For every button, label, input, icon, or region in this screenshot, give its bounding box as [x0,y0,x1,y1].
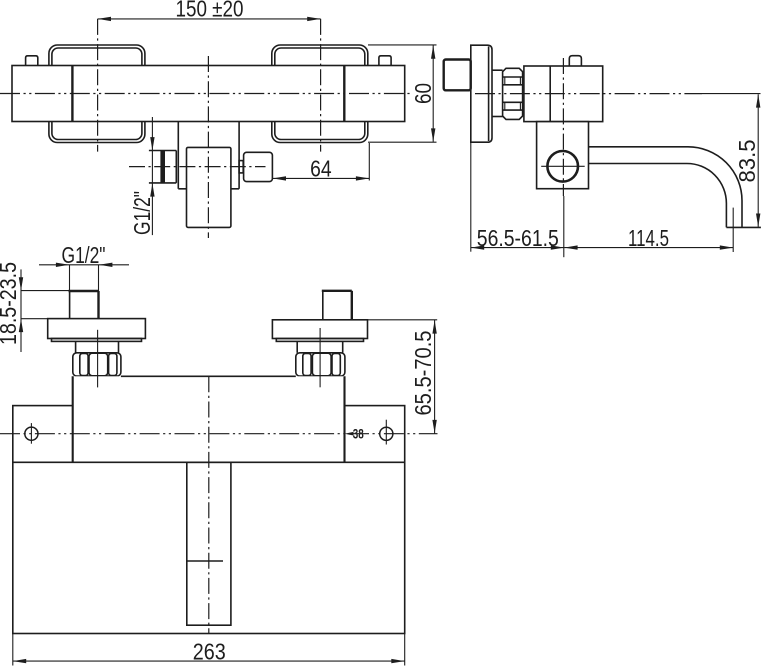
bar bottom / ears bottom line [13,461,405,463]
svg-text:64: 64 [310,155,332,181]
hex nut side [503,68,523,119]
dimension 114.5 [564,225,733,251]
wall plate [13,406,405,634]
left handle centerline [97,19,99,152]
svg-text:83.5: 83.5 [734,140,760,183]
right neck [297,341,343,352]
dimension 65.5-70.5 [368,320,438,434]
svg-text:G1/2": G1/2" [129,191,155,235]
dimension 60 [368,45,437,142]
left screw hole [25,423,38,444]
bottom vertical centerline [208,376,210,633]
right connector tab [239,161,243,173]
svg-text:150 ±20: 150 ±20 [176,0,244,22]
left thread square [69,291,99,319]
left hex nut [73,353,121,376]
dimension 263 [13,634,405,666]
dimension G1/2 front [129,117,155,235]
spout [589,147,761,228]
right handle square [272,45,368,143]
spout block [537,122,589,189]
inner line in drop rect [187,560,223,562]
svg-text:38: 38 [353,426,364,442]
svg-text:18.5-23.5: 18.5-23.5 [0,262,21,345]
aerator circle [547,151,578,182]
dimension 150 +-20 [98,0,321,22]
svg-text:60: 60 [410,83,436,104]
cartridge edge right [343,66,345,122]
svg-text:56.5-61.5: 56.5-61.5 [477,225,559,251]
left shower connector [149,151,176,183]
drop rectangle (shower outlet plan) [187,462,231,625]
left top tab [26,56,38,66]
circle crosshair [541,165,585,167]
svg-text:G1/2": G1/2" [62,242,106,268]
right top tab [379,56,391,66]
right flange [272,320,367,342]
dimension 83.5 [734,94,761,227]
right thread square [322,291,352,320]
dimension 64 [273,143,370,181]
svg-text:65.5-70.5: 65.5-70.5 [410,331,436,416]
left neck [76,341,119,352]
wall flange [471,45,492,142]
left handle square [49,45,145,143]
right hex nut [296,353,345,376]
dimension 18.5-23.5 [0,262,70,352]
connection stubs [492,70,503,116]
faucet bar body [12,66,405,122]
left column centerline [97,330,99,388]
bottom horizontal centerline [0,433,438,435]
fixture vertical centerline [207,56,209,238]
dimension 56.5-61.5 [471,225,564,251]
side horizontal centerline [475,93,761,95]
dimension G1/2 bottom [39,242,129,291]
handle side [444,60,471,91]
svg-text:114.5: 114.5 [628,225,669,251]
right screw hole [380,420,393,445]
svg-text:263: 263 [193,639,226,665]
left flange [48,319,146,342]
front block (outlet) [187,147,231,227]
side vertical centerline [562,58,564,196]
spout tip inner line / extension [732,208,734,252]
cartridge edge left [71,66,73,122]
top knob [569,56,581,66]
right check-valve connector [244,152,273,181]
right column centerline [319,328,321,387]
main horizontal centerline [0,93,413,95]
neck below bar [178,122,239,189]
valve body side [524,66,603,122]
right handle centerline [320,19,322,152]
mixer bar plan view [73,376,345,462]
connector level centerline [129,166,266,168]
38 arrow and label [345,426,364,442]
flange extension line [470,142,472,252]
